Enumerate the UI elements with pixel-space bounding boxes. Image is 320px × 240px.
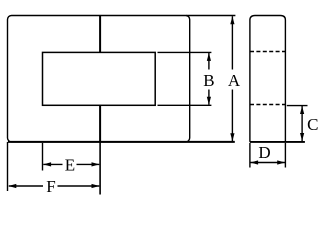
svg-text:E: E — [65, 155, 75, 174]
dimension F line — [9, 185, 43, 187]
dimension C line — [301, 106, 303, 141]
extension line: top edge to dimension A — [186, 15, 235, 17]
extension line: window top to dimension B — [158, 51, 212, 53]
side view bottom edge and extension to dimension C — [250, 141, 305, 143]
dimension F right arrowhead — [92, 184, 100, 188]
svg-text:C: C — [307, 115, 318, 134]
side view outline — [250, 16, 286, 142]
dimension D line — [250, 162, 285, 164]
center leg line upper — [99, 16, 101, 53]
dimension A upper arrowhead — [230, 16, 234, 24]
extension line: left edge down to dimension F — [7, 142, 9, 191]
dimension B line — [208, 53, 210, 70]
dimension C upper arrowhead — [300, 106, 304, 114]
side view hidden line upper — [250, 51, 285, 53]
dimension E right arrowhead — [92, 162, 100, 166]
dimension B upper arrowhead — [207, 53, 211, 61]
dimension B lower arrowhead — [207, 97, 211, 105]
dimension A line — [231, 16, 233, 69]
center leg line lower — [99, 105, 101, 142]
front view bottom edge (thick) — [8, 141, 235, 143]
extension line: window left edge down to dimension E — [42, 143, 44, 171]
svg-text:B: B — [203, 71, 214, 90]
svg-text:A: A — [228, 71, 241, 90]
extension line: window bottom to dimension B — [158, 104, 212, 106]
extension line: side view right edge down to dimension D — [284, 143, 286, 168]
dimension D right arrowhead — [277, 160, 285, 164]
extension line: side view left edge down to dimension D — [249, 143, 251, 168]
dimension E line — [43, 163, 62, 165]
dimension C lower arrowhead — [300, 133, 304, 141]
svg-text:F: F — [46, 177, 55, 196]
extension line: center leg down to dimensions E and F — [99, 142, 101, 195]
front view outer outline — [8, 16, 190, 142]
front view window rectangle — [43, 52, 156, 105]
dimension F left arrowhead — [8, 184, 16, 188]
dimension E left arrowhead — [43, 162, 51, 166]
svg-text:D: D — [258, 143, 270, 162]
dimension D left arrowhead — [250, 160, 258, 164]
dimension A lower arrowhead — [230, 133, 234, 141]
extension line: hidden line to dimension C — [287, 105, 308, 107]
side view hidden line lower — [250, 104, 285, 106]
